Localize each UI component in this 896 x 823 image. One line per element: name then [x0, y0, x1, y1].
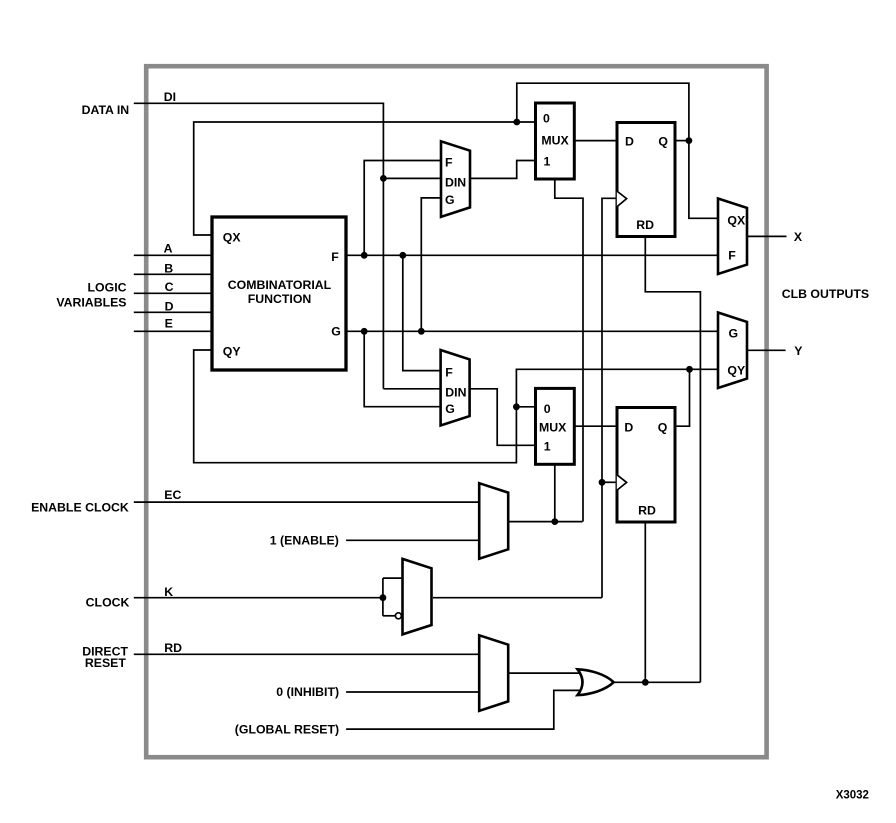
svg-text:QX: QX — [223, 230, 242, 244]
svg-text:0: 0 — [543, 112, 550, 126]
svg-text:D: D — [624, 421, 633, 435]
svg-text:G: G — [445, 193, 455, 207]
svg-text:LOGIC: LOGIC — [88, 281, 127, 295]
svg-text:B: B — [164, 261, 173, 275]
svg-text:X: X — [794, 230, 803, 244]
svg-text:G: G — [445, 402, 455, 416]
svg-text:X3032: X3032 — [836, 790, 869, 802]
svg-text:F: F — [445, 365, 453, 379]
svg-text:F: F — [728, 248, 736, 262]
svg-text:C: C — [165, 280, 174, 294]
svg-text:CLB OUTPUTS: CLB OUTPUTS — [782, 287, 869, 301]
svg-text:RD: RD — [636, 218, 654, 232]
svg-text:DIN: DIN — [445, 175, 466, 189]
svg-text:DATA IN: DATA IN — [82, 103, 130, 117]
svg-text:MUX: MUX — [541, 134, 569, 148]
svg-text:1 (ENABLE): 1 (ENABLE) — [270, 533, 339, 547]
svg-text:A: A — [164, 242, 173, 256]
svg-text:(GLOBAL RESET): (GLOBAL RESET) — [235, 722, 339, 736]
svg-text:DIN: DIN — [445, 385, 466, 399]
svg-text:Q: Q — [658, 134, 668, 148]
svg-text:0: 0 — [544, 402, 551, 416]
svg-text:G: G — [729, 326, 739, 340]
svg-text:RD: RD — [638, 503, 656, 517]
svg-text:ENABLE CLOCK: ENABLE CLOCK — [31, 501, 129, 515]
svg-text:FUNCTION: FUNCTION — [248, 292, 312, 306]
svg-text:Y: Y — [794, 344, 802, 358]
svg-text:G: G — [331, 325, 341, 339]
svg-text:D: D — [165, 299, 174, 313]
svg-text:QX: QX — [727, 213, 746, 227]
svg-text:0 (INHIBIT): 0 (INHIBIT) — [276, 685, 339, 699]
svg-text:E: E — [165, 317, 173, 331]
svg-text:Q: Q — [658, 421, 668, 435]
svg-text:QY: QY — [727, 364, 745, 378]
svg-text:VARIABLES: VARIABLES — [56, 295, 126, 309]
svg-text:COMBINATORIAL: COMBINATORIAL — [228, 278, 332, 292]
svg-text:CLOCK: CLOCK — [86, 596, 130, 610]
svg-text:QY: QY — [223, 344, 241, 358]
svg-text:F: F — [331, 250, 339, 264]
svg-text:RD: RD — [164, 641, 182, 655]
svg-text:DI: DI — [164, 90, 176, 104]
svg-text:D: D — [625, 134, 634, 148]
svg-text:EC: EC — [164, 488, 181, 502]
svg-text:RESET: RESET — [85, 656, 126, 670]
svg-text:K: K — [164, 585, 173, 599]
svg-text:1: 1 — [544, 155, 551, 169]
svg-text:MUX: MUX — [539, 421, 567, 435]
svg-text:F: F — [445, 155, 453, 169]
svg-text:1: 1 — [544, 439, 551, 453]
